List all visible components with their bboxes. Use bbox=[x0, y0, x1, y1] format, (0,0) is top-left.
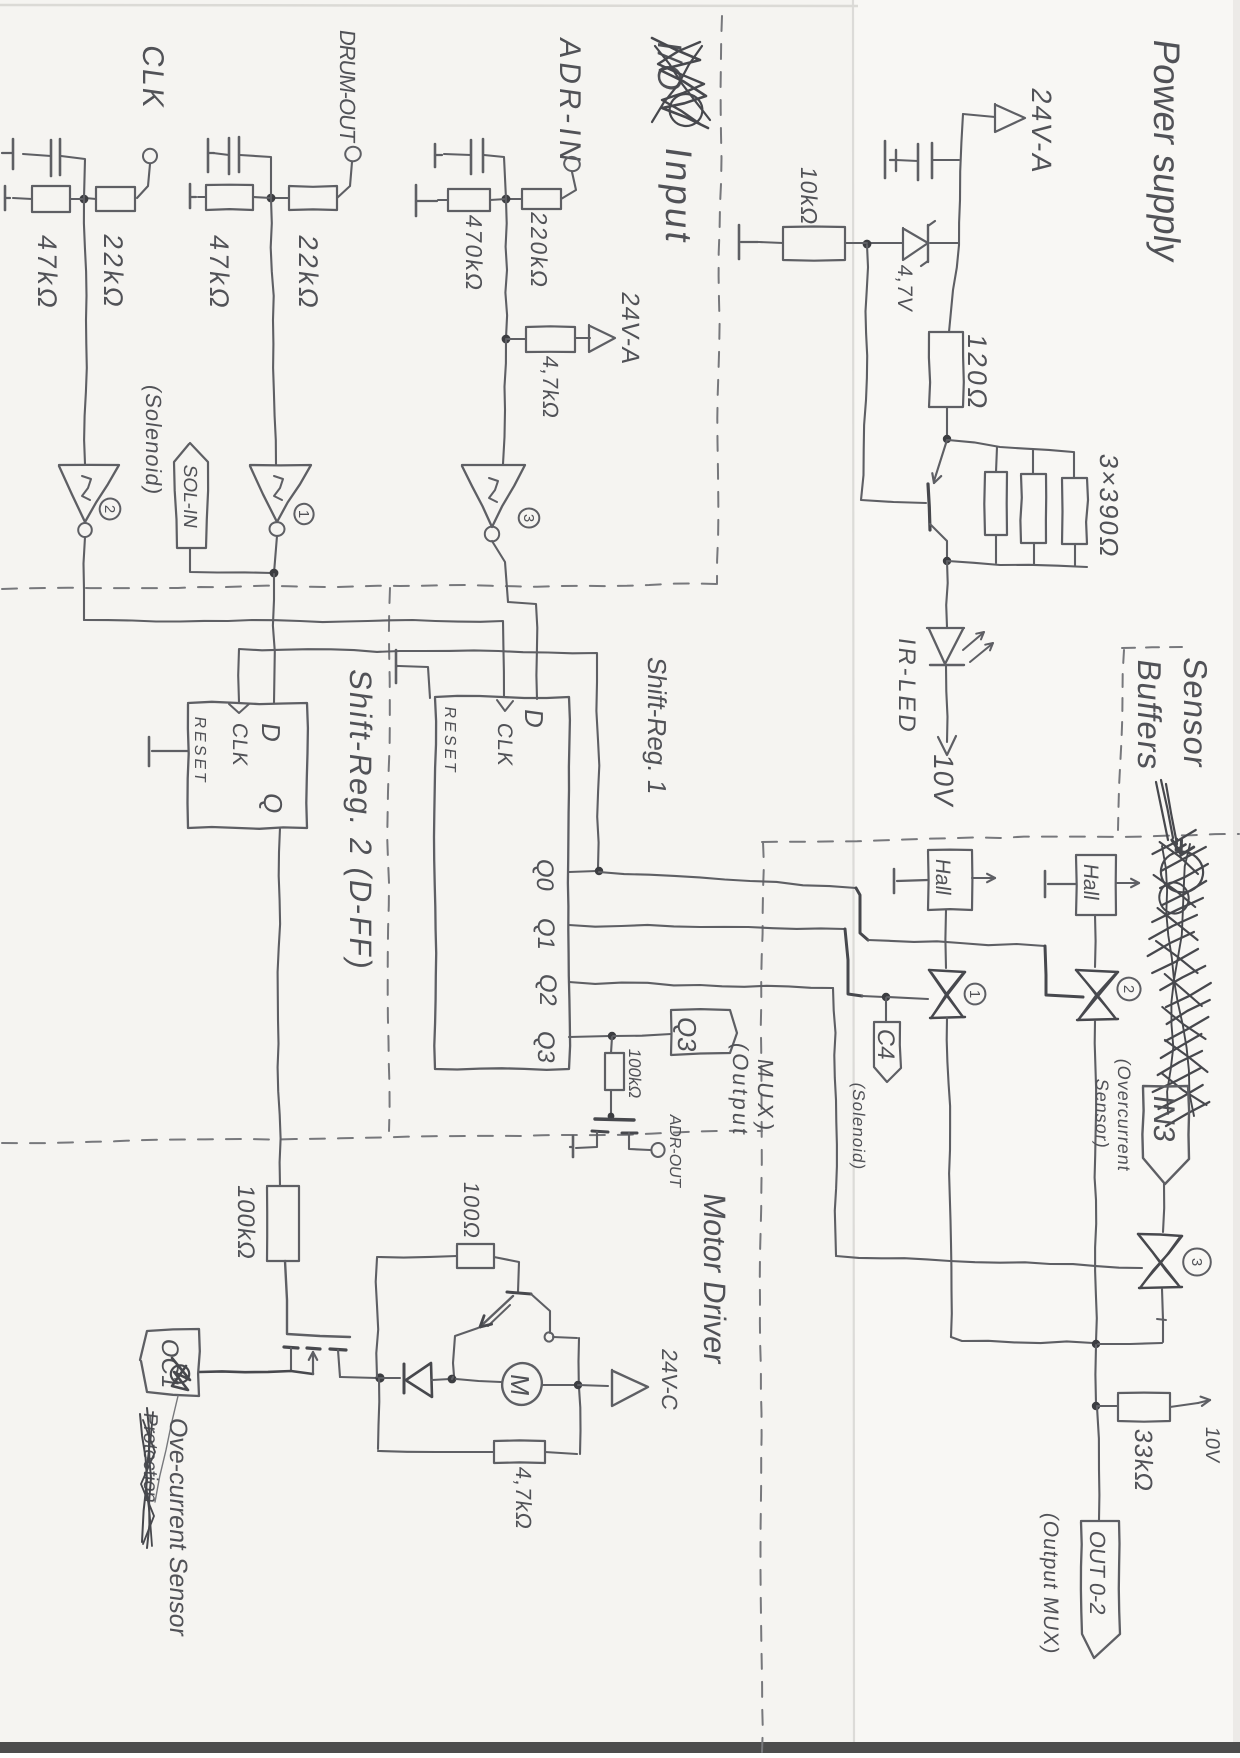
section divider dashed I/O-input bottom bbox=[2, 584, 716, 590]
label Hall 2 bbox=[1079, 862, 1102, 901]
wire collector to right branch bbox=[553, 1337, 577, 1338]
value 47k&#937; (CLK) bbox=[32, 233, 63, 313]
transistor Q2 base bar bbox=[507, 1292, 531, 1294]
wire Q1 to sensor 1 gate bbox=[569, 925, 884, 997]
wire motor node to 24V-C bbox=[578, 1385, 608, 1386]
wire node to R3 bbox=[253, 197, 271, 198]
svg-text:CLK: CLK bbox=[136, 43, 169, 112]
wire R12 bottom stub bbox=[1033, 543, 1035, 565]
label OUT 0-2 bbox=[1085, 1529, 1110, 1616]
wire C2 to ground bbox=[213, 153, 229, 155]
transistor M2 source plate bbox=[592, 1131, 608, 1132]
label 24V-A (main) bbox=[1026, 86, 1057, 177]
svg-text:10V: 10V bbox=[1201, 1425, 1223, 1464]
value 4,7k&#937; (pullup) bbox=[538, 354, 563, 420]
svg-text:M: M bbox=[505, 1372, 535, 1398]
label 24V-A (pullup) bbox=[616, 290, 644, 367]
label 24V-C bbox=[657, 1347, 682, 1412]
node Q3 junction bbox=[608, 1032, 616, 1040]
capacitor C3 (ADR) bbox=[471, 139, 483, 174]
resistor R1 47k (CLK shunt) bbox=[32, 186, 70, 212]
wire Q0 to D-FF clock bbox=[238, 649, 599, 868]
svg-text:33kΩ: 33kΩ bbox=[1129, 1427, 1157, 1494]
svg-text:24V-A: 24V-A bbox=[616, 290, 644, 367]
pin label Q (U5) bbox=[258, 791, 288, 815]
wire R2 to node CLK bbox=[85, 198, 96, 199]
value 120&#937; bbox=[962, 332, 993, 414]
title Shift-Reg. 1 bbox=[642, 655, 672, 796]
value 47k&#937; (DRUM) bbox=[204, 233, 235, 313]
resistor R5 470k (ADR shunt) bbox=[448, 189, 490, 211]
wire Q0 stub bbox=[569, 871, 597, 872]
label SOL-IN bbox=[179, 463, 200, 529]
sensor Hall 2 box bbox=[1076, 855, 1116, 915]
wire U5 Q output down bbox=[278, 828, 281, 1186]
svg-text:100Ω: 100Ω bbox=[459, 1180, 484, 1241]
pin label Q0 bbox=[531, 857, 558, 893]
resistor R12 390R bbox=[1020, 474, 1046, 543]
wire R11 bottom stub bbox=[995, 535, 997, 563]
wire motor right bbox=[543, 1384, 576, 1386]
label Sensor) bbox=[1092, 1077, 1112, 1150]
svg-text:Buffers: Buffers bbox=[1130, 657, 1167, 773]
wire R8 to M2 gate bbox=[610, 1090, 612, 1113]
svg-text:Hall: Hall bbox=[931, 857, 954, 896]
svg-text:47kΩ: 47kΩ bbox=[32, 233, 63, 313]
wire node CLK to inverter 2 bbox=[84, 199, 87, 464]
wire U4 reset pin bbox=[399, 666, 430, 698]
sensor switch 3 number bbox=[1183, 1249, 1211, 1276]
ground U4 reset bbox=[396, 650, 398, 683]
wire node to R9 bbox=[846, 242, 867, 244]
page right edge band bbox=[1233, 0, 1240, 1753]
transistor M1 plate 2 bbox=[307, 1348, 320, 1349]
section divider dashed vertical top-mid bbox=[717, 16, 722, 584]
resistor R13 390R bbox=[1062, 478, 1088, 544]
resistor R10 120R bbox=[929, 332, 964, 407]
value 3x390&#937; bbox=[1094, 452, 1124, 561]
label MUX) (Q3) bbox=[753, 1057, 778, 1137]
capacitor C5 (24V-A) bbox=[918, 143, 932, 180]
svg-text:OUT 0-2: OUT 0-2 bbox=[1085, 1529, 1110, 1616]
label (Output MUX) bbox=[1039, 1511, 1062, 1656]
resistor R6 220k (ADR series) bbox=[522, 189, 561, 209]
wire inverter U3 out bbox=[492, 541, 537, 699]
wire Hall 2 to sensor switch 2 bbox=[1094, 915, 1097, 967]
wire C1 to ground bbox=[23, 154, 51, 156]
ground C2 bbox=[208, 139, 214, 172]
label IR-LED bbox=[893, 636, 920, 736]
wire node ADR down bbox=[505, 200, 507, 338]
node ADR junction bbox=[502, 195, 511, 204]
label ADR-IN bbox=[553, 36, 586, 168]
svg-text:(Solenoid): (Solenoid) bbox=[141, 383, 166, 497]
wire sensor 3 to output node bbox=[1098, 1343, 1162, 1344]
ground C5 bbox=[885, 141, 896, 178]
node M1 drain junction bbox=[375, 1373, 384, 1382]
svg-text:Shift-Reg. 2 (D-FF): Shift-Reg. 2 (D-FF) bbox=[343, 667, 378, 973]
wire rail to zener bbox=[930, 242, 959, 244]
label CLK bbox=[136, 43, 169, 112]
transistor Q1 emitter arrow bbox=[932, 473, 941, 483]
wire 390 top connector bbox=[948, 440, 1073, 452]
ground ADR shunt bbox=[416, 185, 437, 216]
svg-text:Q3: Q3 bbox=[532, 1029, 559, 1065]
svg-text:22kΩ: 22kΩ bbox=[293, 233, 324, 313]
diode D2 freewheel bbox=[404, 1363, 432, 1397]
svg-text:Q1: Q1 bbox=[532, 916, 559, 952]
label (Output (MUX) bbox=[728, 1041, 753, 1139]
wire SOL-IN to node bbox=[190, 548, 272, 573]
leader line OC1 note bbox=[155, 1396, 178, 1502]
wire junction to R14 bbox=[1097, 1405, 1118, 1407]
label Q3 flag bbox=[672, 1015, 702, 1054]
svg-text:4,7V: 4,7V bbox=[893, 263, 916, 313]
title I/O scribbled out bbox=[650, 38, 710, 128]
label M motor bbox=[505, 1372, 535, 1398]
wire OC1 to M1 source bbox=[199, 1371, 313, 1374]
node motor left junction bbox=[448, 1375, 457, 1384]
wire R14 to 10V arrow bbox=[1170, 1397, 1210, 1407]
wire node to diode bbox=[380, 1377, 400, 1379]
power flag 24V-A main bbox=[995, 104, 1025, 132]
svg-text:IN3: IN3 bbox=[1147, 1093, 1180, 1144]
sensor switch 2 bowtie bbox=[1076, 970, 1118, 1020]
svg-text:ADR-IN: ADR-IN bbox=[553, 36, 586, 168]
wire M2 drain to terminal bbox=[629, 1133, 650, 1150]
flag C4 bbox=[874, 1022, 901, 1082]
wire Q3 stub bbox=[569, 1036, 610, 1037]
pin label Q3 bbox=[532, 1029, 559, 1065]
node Q0 junction bbox=[595, 867, 603, 875]
svg-text:(Solenoid): (Solenoid) bbox=[849, 1081, 868, 1171]
svg-text:1: 1 bbox=[295, 510, 312, 518]
wire Q2 to sensor 3 gate bbox=[569, 982, 1142, 1268]
wire inverter U2 out bbox=[84, 537, 86, 620]
terminal DRUM-OUT bbox=[344, 146, 362, 163]
IR-LED emission arrows bbox=[963, 632, 993, 662]
pin label Q1 bbox=[532, 916, 559, 952]
shift register U4 clock chevron bbox=[497, 700, 513, 711]
node DRUM junction bbox=[267, 194, 276, 203]
inverter U3 bubble bbox=[485, 526, 500, 541]
wire junction to sensor 1 bbox=[887, 997, 928, 999]
sensor Hall 1 box bbox=[928, 850, 972, 910]
transistor M2 drain plate bbox=[622, 1132, 637, 1135]
svg-text:(Output MUX): (Output MUX) bbox=[1039, 1511, 1062, 1656]
sensor title dashed corner bbox=[1118, 647, 1182, 830]
svg-text:RESET: RESET bbox=[441, 705, 459, 776]
value 4,7V bbox=[893, 263, 916, 313]
flag OUT 0-2 bbox=[1081, 1521, 1120, 1658]
inverter U3 number 3 bbox=[519, 508, 540, 527]
wire collector to IR-LED bbox=[946, 561, 948, 627]
svg-text:Q0: Q0 bbox=[531, 857, 558, 893]
transistor M2 gate bar bbox=[595, 1119, 634, 1120]
svg-text:RESET: RESET bbox=[191, 715, 209, 786]
wire terminal ADR to R6 bbox=[561, 172, 576, 199]
pin label Q2 bbox=[534, 972, 561, 1008]
resistor R16 100R bbox=[457, 1244, 494, 1268]
wire node ADR to cap bbox=[484, 155, 506, 199]
title Sensor bbox=[1176, 655, 1213, 771]
scribbled-out sensor notes bbox=[1148, 830, 1211, 1126]
resistor R4 22k (DRUM series) bbox=[289, 186, 337, 210]
value 33k&#937; bbox=[1129, 1427, 1157, 1494]
wire node to R5 bbox=[490, 199, 506, 200]
node motor right junction bbox=[574, 1381, 582, 1389]
wire junction to Q3 flag bbox=[613, 1034, 671, 1036]
wire inverter U1 out to node bbox=[274, 536, 277, 573]
wire sensor 2 down bbox=[1095, 1021, 1097, 1342]
svg-text:Q3: Q3 bbox=[672, 1015, 702, 1054]
wire R9 to ground bbox=[759, 242, 783, 243]
node Q1 collector junction bbox=[943, 557, 951, 565]
wire 120R to emitter node bbox=[946, 407, 948, 437]
terminal ADR-IN bbox=[562, 155, 581, 173]
wire node DRUM to cap bbox=[240, 155, 271, 198]
transistor Q1 collector bbox=[930, 524, 947, 559]
svg-text:Sensor): Sensor) bbox=[1092, 1077, 1112, 1150]
diode IR-LED bbox=[927, 628, 964, 665]
label Protection crossed out bbox=[139, 1408, 161, 1548]
wire sensor 3 down bbox=[1162, 1289, 1163, 1342]
svg-text:IR-LED: IR-LED bbox=[893, 636, 920, 736]
title Motor Driver bbox=[697, 1191, 732, 1366]
wire right branch down bbox=[579, 1338, 581, 1454]
wire junction to C4 flag bbox=[885, 998, 887, 1021]
svg-text:Sensor: Sensor bbox=[1176, 655, 1213, 771]
resistor R17 4.7k bbox=[494, 1440, 545, 1463]
node SOL junction bbox=[270, 569, 279, 578]
pin label D (U5) bbox=[256, 721, 286, 744]
terminal CLK bbox=[142, 148, 158, 164]
wire 390 bottom connector bbox=[948, 561, 1087, 567]
flag SOL-IN bbox=[174, 443, 208, 548]
wire C3 to ground bbox=[444, 154, 471, 155]
svg-text:22kΩ: 22kΩ bbox=[98, 232, 129, 312]
svg-text:120Ω: 120Ω bbox=[962, 332, 993, 414]
wire node up to 100R rail bbox=[376, 1258, 379, 1377]
wire bottom loop right bbox=[545, 1452, 577, 1454]
transistor M1 substrate arrow bbox=[309, 1352, 317, 1374]
value 22k&#937; (DRUM) bbox=[293, 233, 324, 313]
wire bottom loop left bbox=[378, 1451, 494, 1452]
wire output node down bbox=[1094, 1345, 1097, 1404]
svg-text:24V-C: 24V-C bbox=[657, 1347, 682, 1412]
node C4 junction bbox=[882, 993, 890, 1001]
pin label RESET (U4) bbox=[441, 705, 459, 776]
sensor title arrow bbox=[1156, 780, 1194, 855]
shift register U4 box bbox=[434, 696, 570, 1070]
section divider dashed motor-top bbox=[2, 1131, 762, 1143]
wire R11 top stub bbox=[996, 447, 997, 472]
resistor R14 33k bbox=[1118, 1393, 1170, 1422]
svg-text:1: 1 bbox=[966, 990, 983, 998]
title Power supply bbox=[1146, 37, 1188, 265]
svg-text:Q: Q bbox=[258, 791, 288, 815]
wire R15 to M1 gate bbox=[285, 1261, 350, 1337]
wire node to R1 bbox=[70, 198, 84, 200]
wire zener to node bbox=[868, 242, 903, 244]
inverter U1 bubble bbox=[269, 521, 285, 536]
node M2 gate blob bbox=[608, 1113, 615, 1120]
inverter U1 number 1 bbox=[293, 502, 315, 525]
title Shift-Reg. 2 (D-FF) bbox=[343, 667, 378, 973]
svg-text:47kΩ: 47kΩ bbox=[204, 233, 235, 313]
page fold line bbox=[853, 0, 854, 1753]
node Q1 emitter junction bbox=[943, 435, 951, 443]
transistor Q2 emitter bbox=[480, 1296, 513, 1327]
wire node DRUM to inverter 1 bbox=[271, 199, 276, 464]
wire R12 top stub bbox=[1032, 450, 1034, 474]
ground R9 bbox=[739, 225, 758, 259]
arrow Hall 1 output bbox=[972, 874, 995, 882]
svg-text:C4: C4 bbox=[872, 1027, 899, 1061]
svg-text:3: 3 bbox=[1188, 1258, 1205, 1266]
svg-text:3×390Ω: 3×390Ω bbox=[1094, 452, 1124, 561]
wire terminal CLK to R2 bbox=[137, 164, 150, 198]
wire Q0 to sensor 2 gate bbox=[599, 872, 1083, 997]
svg-text:Power supply: Power supply bbox=[1146, 37, 1188, 265]
inverter U2 hysteresis bbox=[82, 476, 91, 500]
transistor Q2 collector bbox=[531, 1294, 550, 1333]
node zener junction bbox=[863, 240, 872, 249]
label (Overcurrent bbox=[1114, 1057, 1134, 1173]
page bottom scan bar bbox=[0, 1742, 1240, 1753]
wire output node to OUT flag bbox=[1097, 1407, 1099, 1520]
node Q2 collector bubble bbox=[544, 1332, 554, 1342]
pin label RESET (U5) bbox=[191, 715, 209, 786]
svg-text:CLK: CLK bbox=[493, 721, 516, 768]
resistor R7 4.7k pullup bbox=[526, 326, 575, 352]
wire Hall 1 to sensor switch 1 bbox=[944, 910, 947, 968]
inverter U2 triangle bbox=[59, 465, 119, 522]
inverter U3 triangle bbox=[462, 465, 525, 527]
wire Q2 emitter to motor node bbox=[452, 1377, 453, 1379]
capacitor C1 (CLK) bbox=[51, 139, 60, 176]
value 4,7k&#937; (R17) bbox=[511, 1465, 536, 1531]
wire 24V-A stem bbox=[963, 114, 995, 117]
wire rail cap tap bbox=[933, 159, 959, 161]
sensor switch 1 number bbox=[963, 982, 987, 1006]
svg-text:MUX): MUX) bbox=[753, 1057, 778, 1137]
wire R3 to ground bbox=[198, 196, 206, 198]
inverter U1 triangle bbox=[250, 465, 311, 522]
wire zener node to Q1 base bbox=[861, 245, 926, 503]
capacitor C2 (DRUM) bbox=[229, 137, 239, 174]
svg-text:ADR-OUT: ADR-OUT bbox=[666, 1113, 684, 1189]
svg-text:DRUM-OUT: DRUM-OUT bbox=[335, 28, 360, 144]
motor M circle bbox=[497, 1358, 547, 1410]
wire R6 to node ADR bbox=[507, 198, 522, 200]
svg-text:24V-A: 24V-A bbox=[1026, 86, 1057, 177]
value 220k&#937; (ADR) bbox=[526, 210, 552, 291]
inverter U2 bubble bbox=[78, 523, 92, 537]
sensor switch 3 bowtie bbox=[1138, 1234, 1182, 1288]
svg-text:(Overcurrent: (Overcurrent bbox=[1114, 1057, 1134, 1173]
inverter U2 number 2 bbox=[97, 496, 123, 523]
power flag 24V-C bbox=[612, 1370, 648, 1406]
svg-text:Ove-current Sensor: Ove-current Sensor bbox=[164, 1416, 192, 1638]
ground C1 bbox=[2, 139, 13, 169]
svg-text:Q2: Q2 bbox=[534, 972, 561, 1008]
node sensor output junction bbox=[1092, 1340, 1100, 1348]
flag Q3 bbox=[671, 1009, 737, 1055]
node 33k junction bbox=[1092, 1402, 1100, 1410]
terminal ADR-OUT bbox=[651, 1143, 665, 1158]
wire M1 source stem bbox=[290, 1348, 292, 1371]
svg-text:2: 2 bbox=[101, 505, 118, 513]
label (Solenoid) input bbox=[141, 383, 166, 497]
transistor M1 plate 1 bbox=[284, 1347, 298, 1348]
wire node to D-FF D bbox=[273, 574, 275, 703]
transistor Q1 emitter bbox=[934, 440, 947, 481]
ground CLK shunt bbox=[5, 186, 10, 210]
svg-text:100kΩ: 100kΩ bbox=[232, 1183, 259, 1262]
node CLK junction bbox=[80, 195, 89, 204]
svg-text:100kΩ: 100kΩ bbox=[625, 1047, 644, 1099]
sensor switch 1 bowtie bbox=[929, 970, 965, 1018]
section divider dashed vertical left-mid bbox=[387, 588, 390, 1131]
flip-flop U5 clock chevron bbox=[229, 704, 249, 713]
page top edge bbox=[0, 5, 858, 6]
wire CLK signal to SR1 clock bbox=[84, 620, 504, 697]
wire Q2 emitter down bbox=[453, 1328, 478, 1376]
wire rail to R16 bbox=[377, 1256, 457, 1258]
wire terminal DRUM to R4 bbox=[337, 162, 352, 198]
value 100k&#937; (DFF) bbox=[232, 1183, 259, 1262]
ground M2 source bbox=[570, 1136, 573, 1157]
svg-text:2: 2 bbox=[1120, 985, 1137, 993]
wire motor left bbox=[456, 1379, 501, 1382]
svg-text:Input: Input bbox=[658, 145, 700, 248]
resistor R2 22k (CLK series) bbox=[96, 187, 135, 211]
wire M2 source to ground bbox=[576, 1132, 597, 1148]
wire R16 to Q2 base bbox=[494, 1257, 519, 1292]
resistor R15 100k (DFF) bbox=[267, 1186, 299, 1261]
wire R4 to node DRUM bbox=[272, 197, 289, 199]
inverter U3 hysteresis bbox=[489, 478, 498, 502]
transistor M1 plate 3 bbox=[330, 1349, 346, 1350]
arrow 10V (LED) bbox=[938, 736, 956, 755]
pin label CLK (U4) bbox=[493, 721, 516, 768]
resistor R8 100k (gate) bbox=[605, 1053, 624, 1090]
label ADR-OUT bbox=[666, 1113, 684, 1189]
title Buffers bbox=[1130, 657, 1167, 773]
wire node ADR to inverter 3 bbox=[503, 340, 506, 464]
value 22k&#937; (CLK) bbox=[98, 232, 129, 312]
resistor R9 10k bbox=[783, 227, 845, 261]
transistor Q1 base bar bbox=[928, 484, 930, 530]
svg-text:SOL-IN: SOL-IN bbox=[179, 463, 200, 529]
node ADR pullup junction bbox=[502, 335, 511, 344]
arrow Hall 2 output bbox=[1116, 879, 1139, 887]
ground U5 reset bbox=[149, 737, 188, 766]
ground Hall 2 bbox=[1045, 871, 1076, 897]
inverter U1 hysteresis bbox=[274, 476, 283, 500]
wire Q3 junction to R8 bbox=[611, 1037, 612, 1053]
pin label CLK (U5) bbox=[228, 721, 251, 768]
label Ove-current Sensor bbox=[164, 1416, 192, 1638]
wire node CLK to cap bbox=[61, 156, 85, 198]
svg-text:Shift-Reg. 1: Shift-Reg. 1 bbox=[642, 655, 672, 796]
wire sensor 1 to output node bbox=[951, 1337, 1093, 1343]
zener diode D1 4.7V bbox=[903, 221, 935, 266]
wire R1 to ground bbox=[13, 198, 32, 199]
sensor switch 2 number bbox=[1114, 974, 1144, 1003]
resistor R3 47k (DRUM shunt) bbox=[206, 185, 253, 210]
